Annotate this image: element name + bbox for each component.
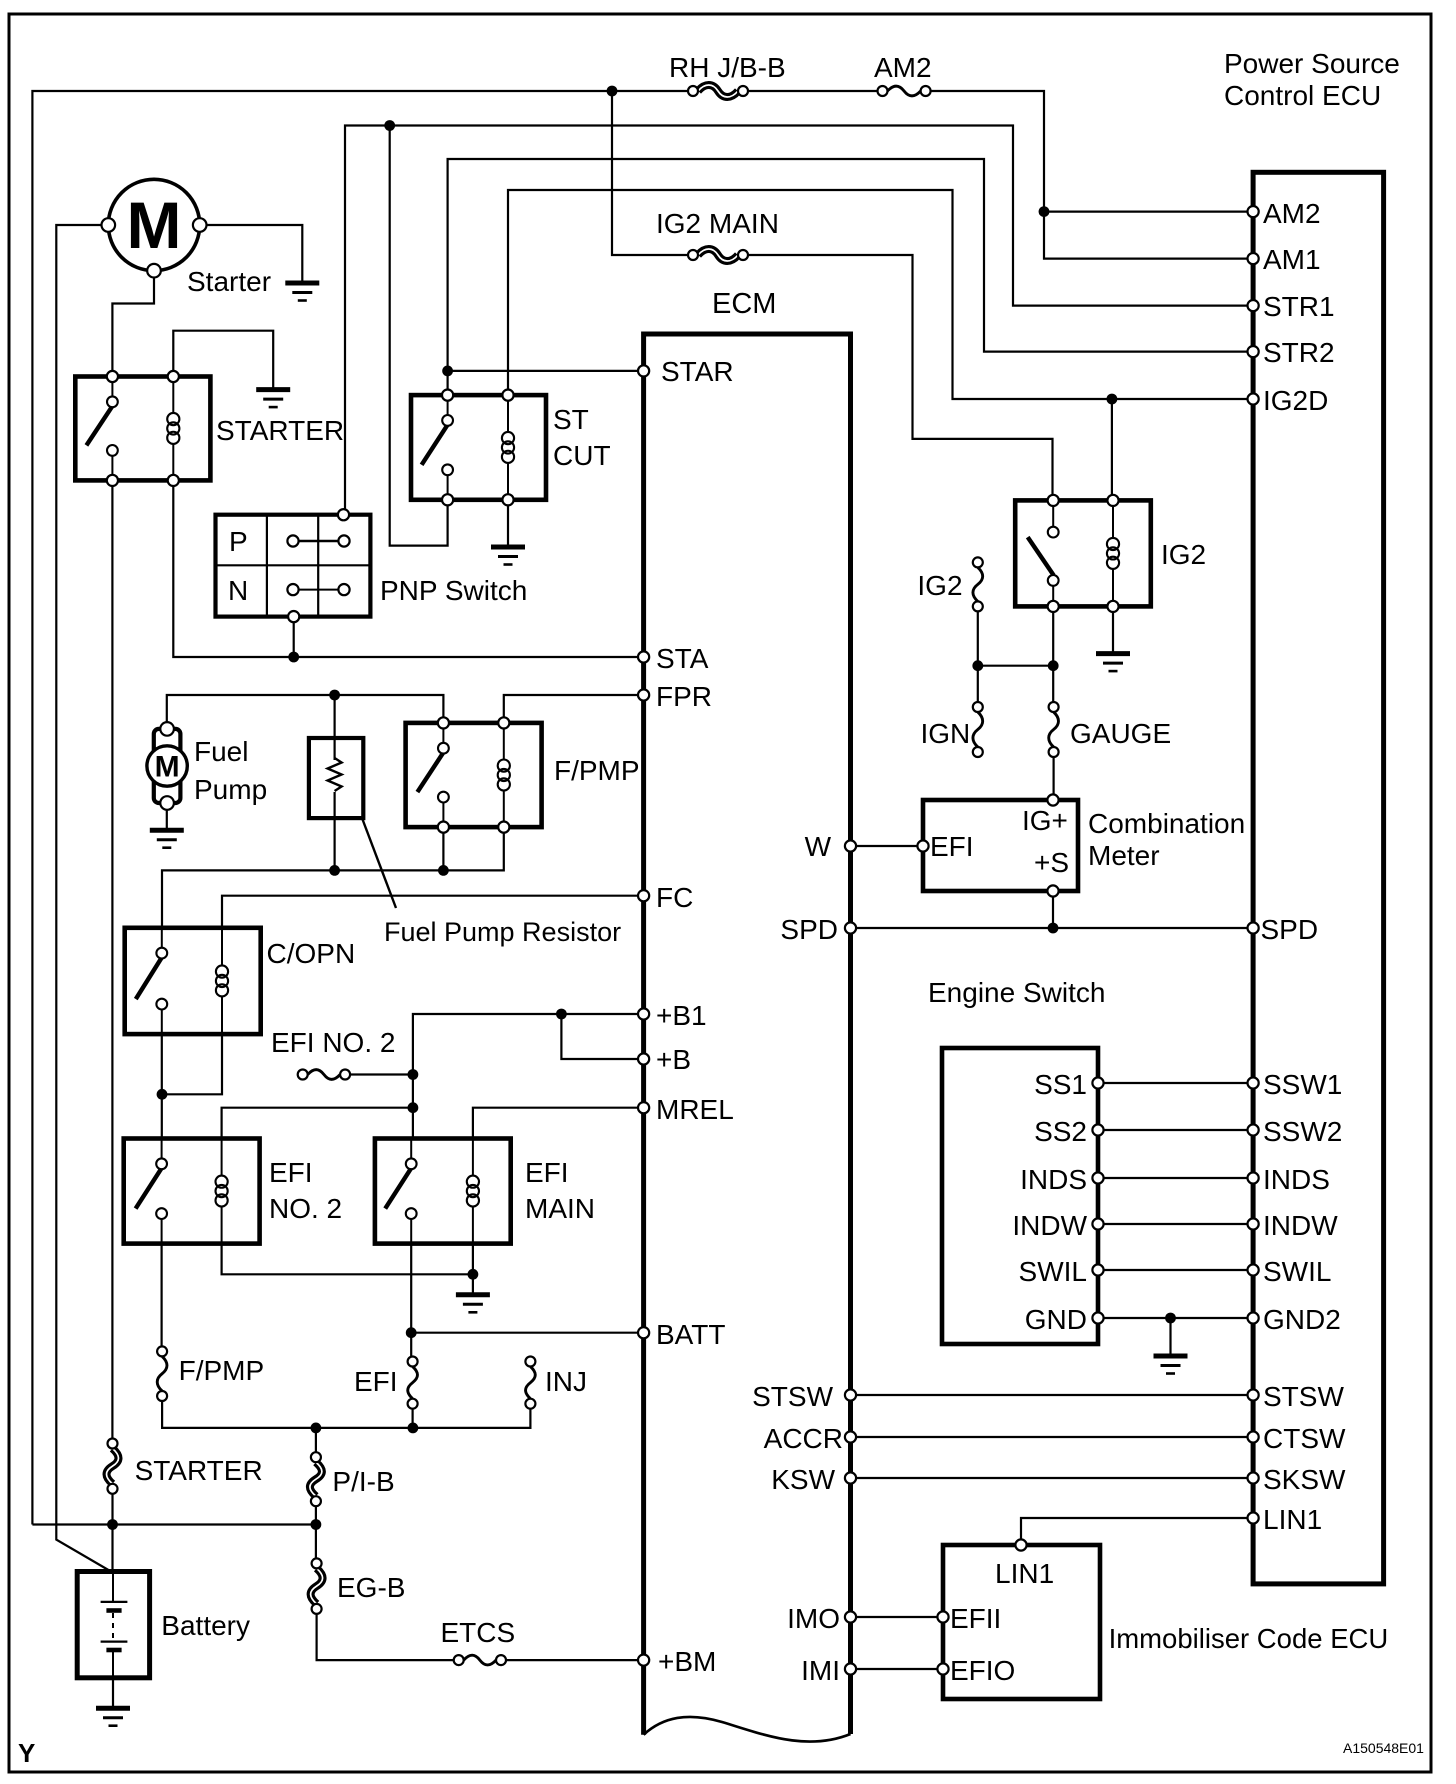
svg-text:STSW: STSW [752,1381,833,1412]
svg-text:SKSW: SKSW [1263,1464,1346,1495]
fuse IGN [973,702,983,757]
svg-text:STARTER: STARTER [135,1455,263,1486]
wire: IMI to EFIO [851,1668,944,1670]
wire: IG2 MAIN fuse to IG2 relay switch [748,255,1053,500]
svg-text:IG+: IG+ [1022,805,1068,836]
wire: battery feed left riser to RH J/B-B [32,91,688,1525]
svg-text:IG2: IG2 [1161,539,1206,570]
junction node (334.6,695) [329,690,340,701]
Engine Switch box [942,1048,1098,1344]
svg-text:EFI: EFI [930,831,974,862]
fusible link STARTER [107,1439,119,1494]
svg-text:W: W [805,831,832,862]
svg-text:KSW: KSW [771,1464,835,1495]
svg-text:F/PMP: F/PMP [554,755,640,786]
wire: ST CUT switch top to STR2 terminal [448,159,1253,395]
svg-text:MAIN: MAIN [525,1193,595,1224]
svg-text:IG2D: IG2D [1263,385,1328,416]
wire: +B1 terminal to EFI MAIN relay switch [413,1014,644,1139]
svg-text:SWIL: SWIL [1263,1256,1331,1287]
svg-text:LIN1: LIN1 [995,1558,1054,1589]
wire: EFI NO.2 relay switch to F/PMP fuse [161,1244,163,1349]
wire: F/PMP relay output bus [162,827,504,928]
battery [77,1572,149,1678]
fuse ETCS [454,1655,506,1665]
PNP switch [216,509,371,622]
svg-text:Fuel Pump Resistor: Fuel Pump Resistor [384,917,621,947]
junction node (447.6,370.9) [442,366,453,377]
ground: STARTER relay coil [256,390,290,408]
wire: F/PMP relay switch bottom drop [442,827,444,870]
Immobiliser Code ECU box [943,1545,1100,1699]
relay EFI NO.2 [124,1139,260,1244]
junction node (1053.2,665.7) [1048,660,1059,671]
relay EFI MAIN [375,1139,511,1244]
svg-text:SSW1: SSW1 [1263,1069,1342,1100]
wire: EFI fuse bottom drop [412,1404,414,1428]
fuse GAUGE [1049,702,1059,757]
junction node (412.9,1107.7) [408,1102,419,1113]
svg-text:F/PMP: F/PMP [179,1355,265,1386]
svg-text:ST: ST [553,404,589,435]
svg-text:IGN: IGN [921,718,971,749]
wire: EFI MAIN coil to ground [472,1244,474,1295]
wire: PNP switch bottom to STA node [293,617,295,657]
wire: IG2 relay switch to GAUGE fuse [1052,606,1054,707]
junction node (1053,928) [1048,923,1059,934]
svg-text:M: M [127,188,182,262]
wire: INDS link [1098,1177,1253,1179]
ground: ST CUT coil [491,547,525,565]
junction node (293.7,657) [288,652,299,663]
svg-text:Pump: Pump [194,774,267,805]
wire: +S to SPD bus [1052,891,1054,928]
junction node (1044,211.6) [1039,206,1050,217]
wire: FC terminal to C/OPN coil [222,896,644,928]
svg-text:INDW: INDW [1263,1210,1338,1241]
wire: GAUGE fuse to IG+ [1052,752,1054,800]
svg-text:IMI: IMI [801,1655,840,1686]
ECM right edge terminals [845,840,856,1674]
wire: starter motor bottom to STARTER relay switch [112,271,154,377]
svg-text:Starter: Starter [187,266,271,297]
wire: STAR tap [448,370,644,372]
svg-text:EFII: EFII [950,1603,1001,1634]
svg-text:STR2: STR2 [1263,337,1335,368]
wire: GND2 node to ground [1169,1318,1171,1356]
svg-text:EFI: EFI [354,1366,398,1397]
svg-text:P/I-B: P/I-B [332,1466,394,1497]
relay F/PMP [406,717,542,832]
svg-text:SPD: SPD [1261,914,1319,945]
wire: ST CUT coil to ground [507,500,509,547]
svg-text:Engine Switch: Engine Switch [928,977,1105,1008]
wire: KSW to SKSW link [851,1477,1254,1479]
svg-text:INDW: INDW [1012,1210,1087,1241]
junction node (612,91) [607,86,618,97]
wire: ST CUT coil top to IG2D terminal [508,190,1253,399]
ground: starter motor [285,283,319,301]
fuse EFI NO. 2 [298,1070,350,1080]
svg-text:C/OPN: C/OPN [267,938,356,969]
svg-text:EFI NO. 2: EFI NO. 2 [271,1027,395,1058]
wire: fuel pump feed to F/PMP relay switch [167,695,444,732]
svg-text:+B1: +B1 [656,1000,707,1031]
svg-text:Meter: Meter [1088,840,1160,871]
svg-text:Y: Y [18,1738,35,1768]
junction node (411.2,1332.7) [406,1327,417,1338]
svg-text:AM1: AM1 [1263,244,1321,275]
wire: tap to IG2 MAIN fuse [612,91,688,255]
fusible link RH J/B-B [688,85,748,97]
wire: SPD bus [851,927,1254,929]
junction node (472.9,1274.3) [468,1269,479,1280]
fuse IG2 [973,557,983,611]
wire: P/I-B to EG-B chain [315,1501,317,1563]
svg-text:Control ECU: Control ECU [1224,80,1381,111]
wire: EG-B to ETCS fuse [317,1609,454,1660]
ECM left edge terminals [638,365,649,1665]
junction node (315.9,1427.9) [311,1423,322,1434]
svg-text:INDS: INDS [1263,1164,1330,1195]
svg-text:SSW2: SSW2 [1263,1116,1342,1147]
junction node (412.9,1074.5) [408,1069,419,1080]
svg-text:EFI: EFI [269,1157,313,1188]
svg-text:LIN1: LIN1 [1263,1504,1322,1535]
fuel pump resistor [309,738,363,818]
svg-text:IG2: IG2 [917,570,962,601]
wire: F/PMP fuse to fuse bus [162,1396,530,1428]
fuel pump motor [147,722,187,810]
svg-text:INJ: INJ [545,1366,587,1397]
svg-text:M: M [155,751,180,784]
relay C/OPN [125,928,261,1034]
svg-text:P: P [229,526,248,557]
wire: AM2 fuse to AM2 terminal [930,91,1253,212]
junction node (1170.5,1318) [1165,1313,1176,1324]
fuse F/PMP [157,1346,167,1401]
wire: STARTER fusible link to battery node [111,1489,113,1572]
wire: BATT node through EFI fuse [410,1244,412,1362]
wire: INDW link [1098,1223,1253,1225]
relay ST CUT [411,390,546,506]
wire: battery negative to ground [112,1678,114,1708]
wire: EFI NO.2 relay coil feed [222,1108,413,1139]
wire: EFI MAIN switch to BATT terminal [411,1332,643,1334]
wire: C/OPN switch bottom to EFI NO.2 relay [161,1034,163,1138]
svg-text:EG-B: EG-B [337,1572,405,1603]
wire: AM2 node to AM1 terminal [1044,212,1253,259]
wire: STARTER relay coil to STA terminal [173,480,643,657]
svg-text:GND: GND [1025,1304,1087,1335]
wire: fuel pump resistor top drop [334,695,336,760]
svg-text:ECM: ECM [712,288,776,320]
svg-text:ACCR: ACCR [764,1423,843,1454]
ECM box with wavy bottom [644,334,851,1735]
svg-text:STARTER: STARTER [216,415,344,446]
svg-text:SS2: SS2 [1034,1116,1087,1147]
wire: fuel pump resistor bottom drop [334,792,336,870]
Combination Meter terminals [917,794,1058,896]
wire: starter motor cable to battery [56,225,111,1572]
svg-text:Immobiliser Code ECU: Immobiliser Code ECU [1109,1623,1389,1654]
wire: W terminal to combination meter EFI [851,845,924,847]
fusible link IG2 MAIN [688,249,748,261]
junction node (389.7,125.5) [384,120,395,131]
svg-text:PNP Switch: PNP Switch [380,575,527,606]
svg-text:FPR: FPR [656,681,712,712]
junction node (443.4,870.4) [438,865,449,876]
svg-text:FC: FC [656,882,693,913]
Immobiliser Code ECU terminals [937,1539,1026,1674]
relay IG2 [1015,495,1151,612]
wire: EFI NO.2 fuse to +B1 riser [350,1073,413,1075]
starter motor M [102,179,207,277]
svg-text:Fuel: Fuel [194,736,248,767]
wire: main battery bus [32,1523,316,1525]
svg-text:STSW: STSW [1263,1381,1344,1412]
fuse INJ [525,1357,535,1409]
svg-text:Power Source: Power Source [1224,48,1400,79]
svg-text:GAUGE: GAUGE [1070,718,1171,749]
junction node (112.5,1524.5) [107,1519,118,1530]
wire: RH J/B-B to AM2 fuse [748,90,878,92]
junction node (334.6,870.4) [329,865,340,876]
wire: STARTER relay switch to STARTER fusible link [111,480,113,1443]
wire: IMO to EFII [851,1616,944,1618]
leader line: fuel pump resistor callout [362,818,396,908]
wire: IG2/IGN cross link [978,665,1053,667]
wire: IG2 fuse chain to IGN fuse [977,606,979,707]
svg-text:GND2: GND2 [1263,1304,1341,1335]
fusible link EG-B [311,1558,323,1614]
svg-text:Battery: Battery [161,1610,250,1641]
svg-text:CTSW: CTSW [1263,1423,1346,1454]
svg-text:STR1: STR1 [1263,291,1335,322]
wire: STARTER relay coil top to ground [173,331,273,390]
junction node (1111.9,399) [1107,394,1118,405]
wire: LIN1 link [1021,1518,1253,1545]
wire: ETCS fuse to +BM terminal [506,1659,644,1661]
wire: SWIL link [1098,1269,1253,1271]
wire: MREL terminal to EFI MAIN relay coil [473,1108,644,1139]
wire: STSW link [851,1394,1254,1396]
svg-text:MREL: MREL [656,1094,734,1125]
wire: IG2 relay coil to ground [1112,606,1114,653]
junction node (162,1094.3) [157,1089,168,1100]
wire: ST CUT switch return riser [390,126,448,546]
svg-text:ETCS: ETCS [441,1617,516,1648]
ground: GND2 [1154,1356,1188,1374]
svg-text:STAR: STAR [661,356,734,387]
wire: relay coil ground link [222,1244,473,1275]
svg-text:AM2: AM2 [1263,198,1321,229]
ground: IG2 relay coil [1096,654,1130,672]
ground: fuel pump [150,830,184,848]
fusible link P/I-B [310,1452,322,1506]
ground: EFI relay coils [456,1295,490,1313]
svg-text:N: N [228,575,248,606]
wire: FPR terminal to F/PMP relay coil [504,695,644,723]
Engine Switch terminals [1092,1077,1103,1323]
svg-text:BATT: BATT [656,1319,725,1350]
ground: battery [96,1708,130,1726]
svg-text:INDS: INDS [1020,1164,1087,1195]
junction node (315.9,1524.5) [311,1519,322,1530]
junction node (412.9,1427.9) [408,1423,419,1434]
wire: fuel pump bottom to ground [166,803,168,830]
svg-text:IG2 MAIN: IG2 MAIN [656,208,779,239]
fuse EFI [408,1357,418,1409]
wire: P/I-B fusible link top riser [315,1428,317,1457]
wire: +B1 node to +B terminal [561,1014,643,1059]
wire: SS2 to SSW2 [1098,1129,1253,1131]
wire: PNP switch top to STR1 terminal [345,126,1253,515]
wire: C/OPN coil return link [162,1034,222,1094]
svg-text:EFI: EFI [525,1157,569,1188]
Power Source Control ECU box [1253,172,1384,1584]
Combination Meter box [923,800,1078,891]
svg-text:AM2: AM2 [874,52,932,83]
svg-text:A150548E01: A150548E01 [1343,1740,1424,1756]
svg-text:EFIO: EFIO [950,1655,1015,1686]
svg-text:+B: +B [656,1044,691,1075]
wire: IG2D node to IG2 relay coil [1111,399,1113,500]
Power Source Control ECU terminals [1248,206,1259,1524]
svg-text:CUT: CUT [553,440,611,471]
wire: SS1 to SSW1 [1098,1082,1253,1084]
wire: GND to GND2 [1098,1317,1253,1319]
junction node (561.4,1014) [556,1009,567,1020]
svg-text:+S: +S [1034,847,1069,878]
fuse AM2 [878,86,931,96]
svg-text:STA: STA [656,643,709,674]
relay STARTER [75,371,210,486]
svg-text:NO. 2: NO. 2 [269,1193,342,1224]
svg-text:IMO: IMO [787,1603,840,1634]
svg-text:SWIL: SWIL [1019,1256,1087,1287]
svg-text:Combination: Combination [1088,808,1245,839]
wire: starter motor right to ground [200,225,303,283]
svg-text:+BM: +BM [658,1646,716,1677]
wire: ACCR to CTSW link [851,1436,1254,1438]
svg-text:SS1: SS1 [1034,1069,1087,1100]
svg-text:SPD: SPD [780,914,838,945]
junction node (977.8,665.7) [972,660,983,671]
svg-text:RH J/B-B: RH J/B-B [669,52,786,83]
